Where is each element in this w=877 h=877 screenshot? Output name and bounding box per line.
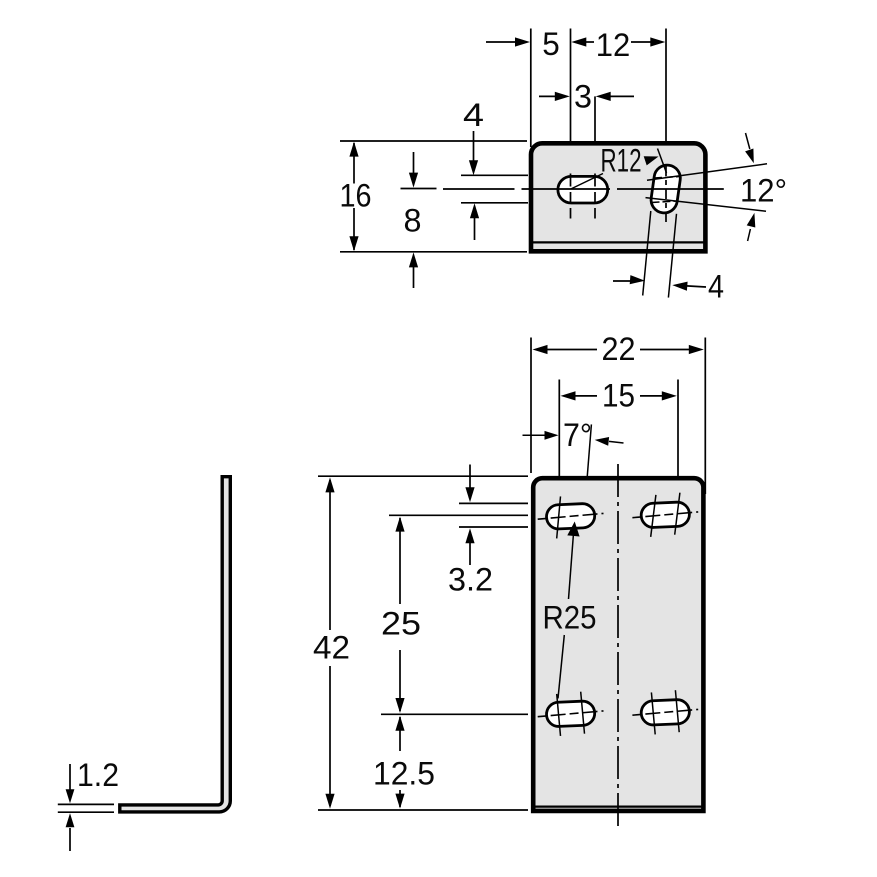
dimension 8 (centerline to bottom edge, top view): [401, 152, 437, 288]
svg-text:42: 42: [313, 630, 350, 666]
dimension 42 (plate height): [313, 477, 350, 808]
dimension 22 extension lines: [531, 338, 705, 495]
top-right slot (obround): [641, 502, 690, 528]
top-left slot centerlines: [538, 496, 604, 538]
svg-text:12°: 12°: [740, 173, 787, 209]
top view plate (grey, rounded top corners): [531, 143, 705, 251]
7 degree tilted line: [583, 424, 592, 536]
svg-text:4: 4: [463, 97, 484, 133]
slot bottom edge extension line: [461, 202, 528, 204]
dimension 3 (slot arc centers, top view): [539, 79, 634, 171]
horizontal centerline (top view, left part): [443, 188, 515, 190]
dimension 15 extension lines: [559, 380, 678, 537]
svg-text:R25: R25: [543, 600, 597, 636]
R12 leader line from left slot: [571, 174, 603, 190]
svg-text:R12: R12: [601, 143, 642, 179]
slot top edge extension line: [461, 174, 528, 176]
svg-text:25: 25: [381, 606, 421, 642]
dimension 12.5 (bottom row to edge): [373, 716, 435, 809]
svg-text:4: 4: [708, 269, 724, 305]
slot centerline extension (top slots): [389, 514, 528, 516]
slot centerline extension (bottom slots): [381, 713, 528, 715]
left slot (top view, obround): [558, 176, 608, 203]
side view L-profile: [120, 477, 231, 812]
bottom-right slot (obround): [641, 699, 690, 725]
dimension 4 (right slot width, below plate): [613, 211, 724, 305]
7 degree arrows: [523, 431, 624, 446]
svg-text:22: 22: [602, 331, 636, 367]
top-right slot centerlines: [632, 493, 698, 537]
svg-text:15: 15: [602, 378, 635, 414]
horizontal centerline (top view, through plate and slots): [522, 188, 724, 190]
right slot (top view, tilted obround): [649, 163, 682, 214]
plate bottom edge extension: [318, 809, 528, 811]
dimension 1.2 (thickness): [58, 757, 119, 851]
dimension 15 (slot spacing): [561, 378, 677, 414]
slot axis reference line (R12 arrow target): [658, 149, 667, 174]
dimension 16 (plate height, top view): [340, 142, 372, 252]
svg-text:16: 16: [340, 178, 372, 214]
dimension 5 and 12 extension lines above plate: [531, 29, 666, 171]
bottom-left slot centerlines: [538, 692, 604, 736]
bottom view plate (grey, rounded top corners): [533, 478, 703, 811]
vertical centerline (bottom view): [617, 464, 619, 829]
bottom view bend line: [532, 805, 706, 807]
right slot centerline ticks: [652, 166, 681, 222]
bottom-right slot centerlines: [632, 690, 698, 734]
svg-text:3: 3: [574, 79, 592, 115]
svg-text:5: 5: [542, 26, 560, 62]
R12 label with arrow: [601, 143, 659, 179]
slot top edge extension: [459, 502, 528, 504]
svg-text:8: 8: [404, 203, 422, 239]
svg-text:12: 12: [596, 27, 631, 63]
dimension 5 (edge to slot center): [486, 26, 560, 62]
dimension 3.2 (slot width): [448, 465, 493, 598]
12 degree angle lines: [646, 164, 768, 211]
left slot centerline ticks: [571, 174, 596, 219]
12 degree arrows: [745, 133, 755, 241]
dimension 12 (slot centers distance): [571, 27, 665, 63]
left extension lines (bottom view top edge): [318, 475, 528, 477]
bottom-left slot (obround): [546, 701, 595, 727]
top view: plate bottom edge extension line: [340, 251, 527, 253]
top-left slot (obround): [546, 503, 595, 529]
svg-text:1.2: 1.2: [77, 757, 119, 793]
top view bend line: [530, 241, 708, 243]
dimension 22 (plate width): [533, 331, 704, 367]
svg-text:3.2: 3.2: [448, 562, 493, 598]
slot bottom edge extension: [459, 526, 528, 528]
dimension 25 (slot row spacing): [381, 517, 421, 713]
svg-text:12.5: 12.5: [373, 756, 435, 792]
top view: plate top edge extension line: [340, 140, 527, 142]
svg-text:7°: 7°: [563, 417, 592, 453]
R25 label with leaders: [543, 522, 597, 699]
dimension 4 (slot width, top view): [463, 97, 484, 240]
